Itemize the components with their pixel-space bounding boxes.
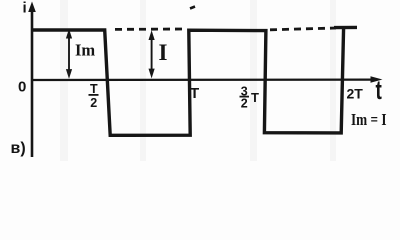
svg-text:Im: Im [75,40,95,59]
svg-text:I: I [159,40,168,65]
svg-text:2T: 2T [347,86,364,102]
x-axis [31,78,374,81]
dashed top level between T/2 and T [115,28,185,31]
paper background [0,0,400,161]
svg-text:T: T [90,82,98,96]
stray scan mark [190,7,195,9]
svg-text:0: 0 [18,79,26,96]
faint scan streaks [60,0,336,161]
svg-text:T: T [251,90,259,105]
svg-text:2: 2 [241,96,248,110]
3/2 T label [240,85,260,111]
y-axis [31,8,34,157]
Im amplitude arrow [66,29,72,79]
svg-text:2: 2 [90,96,97,110]
x-axis label t [376,75,383,105]
svg-text:i: i [23,0,27,17]
T/2 fraction label [89,82,99,110]
svg-text:T: T [190,85,199,102]
svg-text:t: t [376,75,383,105]
y-axis arrowhead [28,2,36,13]
I rms arrow [149,30,155,78]
dashed top level between 3/2T and 2T [270,28,336,30]
x-axis arrowhead [371,76,383,82]
wave top cap at 2T [334,26,357,30]
svg-text:в): в) [11,140,26,157]
square wave [32,28,344,136]
svg-text:Im = I: Im = I [351,110,387,129]
